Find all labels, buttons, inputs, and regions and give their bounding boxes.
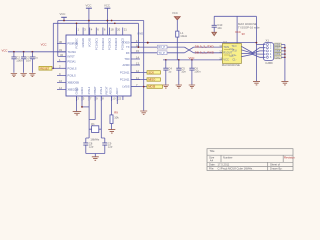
net label yellow 2 (147, 78, 160, 82)
svg-text:Q1: Q1 (91, 122, 95, 126)
svg-text:LVS/S: LVS/S (122, 85, 129, 89)
ground for C3 (29, 74, 35, 77)
wire joining caps (86, 154, 105, 157)
wire line1 TX (131, 46, 185, 48)
svg-text:21: 21 (124, 28, 128, 32)
svg-text:VCC: VCC (104, 4, 110, 8)
IC1 bottom pin numbers (77, 97, 121, 101)
svg-text:PC1ADC1: PC1ADC1 (94, 37, 98, 50)
svg-text:TXD: TXD (124, 57, 129, 61)
net label box TX (157, 45, 167, 49)
wire pin7 stub down (116, 96, 118, 104)
svg-text:C:\Prog\ MCU8 Cube 16MHz..: C:\Prog\ MCU8 Cube 16MHz.. (218, 167, 254, 171)
annotation text MAX (238, 22, 260, 29)
power ground arrow under C10 (212, 32, 217, 35)
capacitor C3 (30, 52, 38, 73)
power VCC arrow symbol P4 (172, 11, 180, 31)
IC1 right pin names (120, 41, 130, 89)
net label RESET (yellow) (39, 66, 66, 70)
junction dot (81, 106, 83, 108)
IC1 left pin stubs (57, 44, 66, 90)
ground for C6 (189, 85, 195, 88)
wires U2 right fan to DB9 (241, 46, 259, 57)
svg-text:RESET: RESET (40, 66, 50, 70)
bottom: wire pin1 to ground (76, 96, 78, 111)
IC1 bottom pin stubs (77, 96, 123, 101)
capacitor C10 (212, 16, 223, 32)
svg-text:10n: 10n (181, 70, 186, 74)
wire jogs to caps (86, 138, 105, 143)
ground under long vertical (140, 111, 147, 115)
svg-text:ADC6: ADC6 (108, 87, 112, 94)
IC1 right pin stubs (131, 43, 140, 87)
capacitor C1 (11, 52, 23, 73)
net label box RX (157, 51, 167, 55)
power VCC symbol P1 (left, bar) (60, 12, 67, 21)
svg-text:100n: 100n (194, 70, 201, 74)
svg-text:22p: 22p (89, 145, 94, 149)
inductor L1 (176, 31, 187, 60)
wire line2 RX (131, 52, 185, 54)
svg-text:VCC: VCC (172, 11, 178, 15)
svg-text:CAB9: CAB9 (265, 61, 273, 65)
title block (207, 149, 293, 171)
svg-text:10n: 10n (217, 26, 222, 30)
svg-text:GNDAD: GNDAD (81, 38, 85, 47)
svg-text:10: 10 (59, 79, 63, 83)
ground for C2 (20, 74, 26, 77)
svg-text:Sheet of: Sheet of (270, 163, 280, 167)
wire top pin1 to rail B (76, 23, 78, 35)
svg-text:Date:: Date: (209, 163, 216, 167)
svg-text:X1: X1 (266, 39, 270, 43)
wire crossover X (185, 47, 194, 53)
IC1 bottom pin names (vertical) (74, 86, 119, 95)
svg-text:20: 20 (117, 28, 121, 32)
ground for C1 (11, 74, 17, 77)
svg-text:PC1A11: PC1A11 (120, 78, 130, 82)
svg-text:Title: Title (210, 149, 215, 153)
junction dot GND net (143, 86, 145, 88)
svg-text:VCCAD: VCCAD (88, 38, 92, 47)
wire line1 right to U2 (194, 46, 223, 48)
junction dots on rails (63, 20, 116, 25)
svg-text:Revision: Revision (284, 155, 295, 159)
ground crystal (92, 157, 99, 161)
svg-text:AVDD: AVDD (122, 63, 129, 67)
svg-text:SCK: SCK (148, 71, 154, 75)
svg-text:PB7XT: PB7XT (105, 86, 109, 95)
svg-text:XTAL2: XTAL2 (99, 86, 103, 94)
wire pin4 jog to crystal leg (89, 96, 95, 120)
ground shield (281, 81, 288, 85)
svg-text:14: 14 (136, 55, 140, 59)
wire pin2 down (81, 96, 83, 107)
resistor R9 (110, 96, 119, 129)
DB9 right net label boxes (275, 43, 282, 60)
IC1 left pin numbers (59, 40, 64, 90)
wire rail A corner drop long vertical to ground (143, 21, 145, 111)
svg-text:22: 22 (118, 97, 122, 101)
svg-text:C2+: C2+ (230, 47, 235, 51)
svg-text:DB.9_3_/TXD: DB.9_3_/TXD (195, 45, 214, 49)
svg-text:10: 10 (112, 97, 116, 101)
svg-text:PC2A11: PC2A11 (120, 70, 130, 74)
svg-text:12: 12 (59, 86, 63, 90)
svg-text:3V: 3V (242, 32, 246, 36)
svg-text:PC2ADC2: PC2ADC2 (101, 37, 105, 50)
ground under R9 (108, 130, 115, 134)
capacitor C8 (83, 142, 94, 154)
IC1 top pin names (vertical) (75, 37, 125, 50)
svg-text:17.5.2011: 17.5.2011 (218, 163, 230, 167)
junction dot railB drop (138, 46, 140, 48)
svg-text:RX_P: RX_P (158, 45, 165, 49)
wire drop to U2 top pin (236, 16, 238, 43)
ground bottom left (73, 112, 82, 115)
svg-text:C2-: C2- (230, 54, 234, 58)
svg-text:1u: 1u (168, 70, 172, 74)
svg-text:RX: RX (126, 51, 130, 55)
svg-text:TX: TX (126, 45, 130, 49)
capacitor C5 (176, 60, 186, 85)
wire rail B corner drop to line1 (137, 23, 139, 47)
svg-text:GND3: GND3 (74, 87, 78, 95)
wire rail B left drop to RESET row (52, 23, 54, 68)
capacitor C6 (189, 60, 201, 85)
ground DB9 (253, 81, 260, 85)
svg-text:T1OSC: T1OSC (68, 50, 77, 54)
ground for C5 (176, 85, 182, 88)
svg-text:16: 16 (219, 57, 223, 61)
wire VCC rail A (58, 20, 144, 22)
svg-text:MISO: MISO (148, 78, 156, 82)
svg-text:MAX3232CSE: MAX3232CSE (222, 63, 240, 67)
svg-text:A4: A4 (210, 159, 214, 163)
wire joining pins 2-3 (82, 106, 89, 108)
svg-text:PC5ADC5: PC5ADC5 (121, 37, 125, 50)
svg-text:GND: GND (137, 32, 143, 36)
svg-text:PC6LS: PC6LS (68, 74, 76, 78)
wire right pins to yellow labels (131, 72, 147, 86)
junction dot RESET join (52, 67, 54, 69)
svg-text:ADC7: ADC7 (115, 87, 119, 94)
svg-text:32: 32 (60, 53, 64, 57)
svg-text:T1IN: T1IN (223, 45, 229, 49)
connector X1 DB9 (256, 39, 273, 66)
junction dot (147, 42, 149, 44)
svg-text:MOSI: MOSI (148, 85, 155, 89)
svg-text:File:: File: (209, 167, 214, 171)
IC U2 MAX3232 RS232 transceiver (219, 40, 241, 67)
junction dot (256, 42, 258, 44)
capacitor C2 (21, 52, 31, 73)
svg-text:18: 18 (111, 28, 115, 32)
svg-text:XTAL1: XTAL1 (87, 86, 91, 94)
svg-text:12: 12 (219, 50, 223, 54)
IC1 top pin stubs (77, 28, 123, 36)
svg-text:VCC: VCC (2, 48, 8, 52)
svg-text:VCC: VCC (41, 43, 47, 47)
ground for C4 (163, 85, 169, 88)
svg-text:PC0ADC: PC0ADC (75, 38, 79, 49)
svg-text:30: 30 (59, 40, 63, 44)
IC1 left pin names (68, 42, 80, 92)
wire top net to DB9 pin (131, 42, 256, 44)
wire top right: cap to U2 and DB9 (214, 15, 256, 17)
wire line2 right to U2 (194, 52, 223, 54)
svg-text:Drawn By:: Drawn By: (270, 167, 283, 171)
svg-text:VCC: VCC (235, 30, 241, 34)
wire VCC line3 (163, 59, 222, 61)
crystal circuit: wire legs (89, 96, 101, 138)
svg-text:INT0T: INT0T (68, 54, 76, 58)
svg-text:PD3A1: PD3A1 (68, 60, 77, 64)
capacitor C4 (163, 60, 172, 85)
svg-text:10k: 10k (114, 116, 119, 120)
svg-text:XBE/OSB: XBE/OSB (68, 81, 80, 85)
svg-text:10uH: 10uH (180, 34, 187, 38)
svg-text:R9: R9 (114, 111, 118, 115)
svg-text:22p: 22p (108, 145, 113, 149)
junction dots line3 (165, 59, 193, 61)
junction dots left caps (13, 51, 33, 53)
svg-text:TX_P: TX_P (158, 51, 165, 55)
net label yellow 3 (147, 85, 162, 89)
svg-text:VCC: VCC (60, 12, 66, 16)
capacitor C9 (102, 142, 113, 154)
junction dots shield bus (284, 47, 286, 58)
wire DB9 gnd drop long vertical (255, 16, 257, 81)
IC1 right pin numbers (136, 39, 140, 87)
svg-text:DB.9_2_/RXD: DB.9_2_/RXD (195, 50, 214, 54)
IC IC1 microcontroller body (66, 35, 131, 96)
svg-text:13: 13 (136, 61, 140, 65)
IC1 top pin numbers (78, 28, 128, 32)
power VCC symbol P3 (bar) (104, 4, 110, 36)
wire shield bus to ground (281, 45, 285, 82)
svg-text:11: 11 (219, 44, 222, 48)
wire rail A left drop to pin row (57, 21, 59, 57)
svg-text:VCC: VCC (223, 58, 229, 62)
net label yellow 1 (147, 71, 160, 75)
svg-text:Number: Number (223, 155, 233, 159)
svg-text:PB6XT: PB6XT (93, 86, 97, 95)
wire left VCC feed (8, 51, 66, 53)
svg-text:PC6/LS: PC6/LS (68, 66, 77, 70)
power VCC symbol P2 (bar) (86, 4, 92, 36)
svg-text:PC4ADC4: PC4ADC4 (114, 37, 118, 50)
svg-text:VCC: VCC (86, 4, 92, 8)
svg-text:SHL: SHL (275, 55, 281, 59)
svg-text:GND4: GND4 (80, 87, 84, 95)
crystal Q1 (89, 122, 101, 133)
svg-text:1u: 1u (35, 55, 39, 59)
wire GND rail B (53, 22, 138, 24)
svg-text:PC3ADC3: PC3ADC3 (108, 37, 112, 50)
